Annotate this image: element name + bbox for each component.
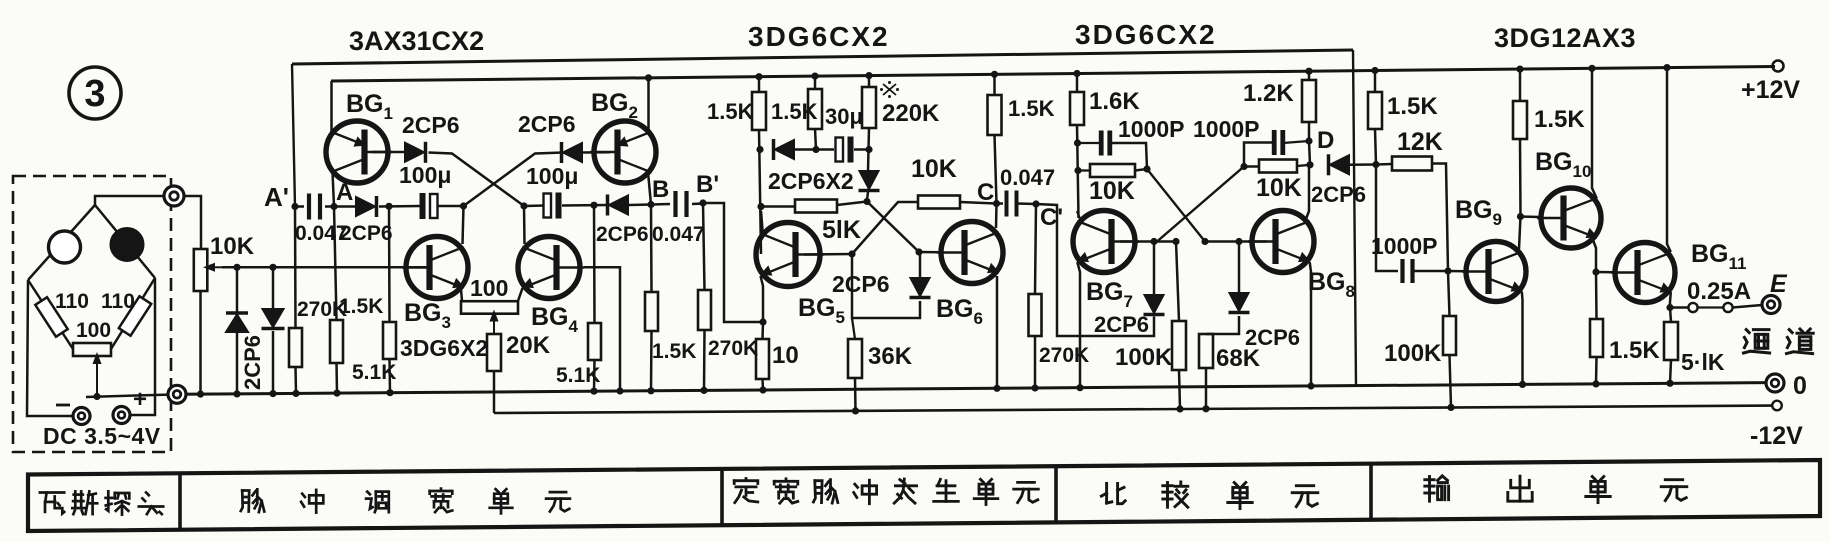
svg-text:5lK: 5lK — [822, 216, 861, 244]
capacitor 1000P right — [1272, 130, 1277, 155]
wire 270K-B leads — [703, 203, 705, 290]
wire wire 10K bottom to 0V bus — [199, 291, 202, 394]
wire BG1 collector to node A — [333, 172, 335, 207]
svg-text:110: 110 — [101, 290, 135, 313]
svg-text:1.5K: 1.5K — [1609, 337, 1660, 364]
svg-text:2CP6: 2CP6 — [1094, 312, 1149, 337]
svg-text:+: + — [133, 386, 147, 413]
svg-text:3DG6CX2: 3DG6CX2 — [1075, 19, 1217, 50]
table cell gas probe — [40, 491, 64, 494]
svg-text:B: B — [652, 176, 669, 203]
wire BG10 base lead — [1521, 215, 1541, 218]
terminal probe output upper — [164, 186, 184, 206]
svg-text:10K: 10K — [911, 155, 957, 183]
bridge pot wiper arrow — [96, 360, 98, 397]
wire 10ohm to bus — [761, 379, 764, 390]
svg-text:5·lK: 5·lK — [1681, 349, 1725, 375]
wire BG7 base row — [1120, 240, 1176, 243]
node junction 220K cap row — [865, 146, 872, 153]
wire BG6 emitter vertical — [996, 276, 999, 388]
wire BG9 base lead — [1448, 270, 1465, 273]
resistor 1.5K third — [988, 95, 1002, 135]
node node A-prime — [291, 203, 298, 210]
svg-text:D: D — [1317, 127, 1334, 154]
wire clamp diode 2 to bus — [272, 331, 275, 394]
node node BG7 base diode tap — [1150, 238, 1157, 245]
svg-text:2CP6: 2CP6 — [1311, 182, 1366, 207]
fuse 0.25A — [1688, 303, 1697, 312]
wire 1.5K-6 top lead — [1595, 272, 1598, 319]
svg-text:10: 10 — [772, 342, 799, 369]
node junction clamp1 bus — [233, 390, 240, 397]
wire 20K bottom to -12V bus start — [493, 371, 496, 413]
wire clamp diode 1 to bus — [236, 332, 239, 394]
transistor BG10 (3DG12A) — [1541, 188, 1601, 248]
svg-text:1.5K: 1.5K — [771, 99, 818, 124]
resistor 270K at C-prime — [1029, 294, 1042, 336]
node junction 1.5K-2 rail — [811, 73, 818, 80]
svg-text:3: 3 — [84, 73, 105, 115]
wire cap to C-prime node — [1017, 202, 1036, 205]
wire X diagonal 10K-right to BG7 base — [1157, 167, 1259, 242]
terminal probe output lower — [168, 385, 186, 403]
svg-text:3DG6CX2: 3DG6CX2 — [748, 21, 890, 52]
gas sensing element (compensating, white) — [49, 231, 81, 263]
wire 1000P-3 branch from junction — [1376, 165, 1398, 272]
node junction wiper/bottom wire — [93, 393, 100, 400]
wire 1.5K-1 top — [758, 77, 761, 92]
node junction cap row left — [1074, 139, 1081, 146]
wire BG7 collector wire — [1077, 211, 1080, 219]
wire -12V bus — [494, 406, 1772, 413]
svg-text:0.047: 0.047 — [1000, 165, 1055, 190]
resistor 1.2K — [1302, 80, 1316, 122]
potentiometer 100 (emitter coupling) — [461, 301, 518, 314]
svg-text:1.5K: 1.5K — [1534, 106, 1585, 133]
potentiometer 100 (bridge balance) — [73, 343, 111, 356]
svg-text:3DG6X2: 3DG6X2 — [400, 335, 488, 361]
wire 1.5K-2 top — [814, 76, 817, 89]
svg-text:10K: 10K — [1089, 177, 1135, 205]
wire BG5 emitter wire — [761, 276, 764, 322]
wire frame left edge / A-prime feed — [292, 64, 295, 207]
diode 2CP6 at A — [356, 197, 375, 216]
terminal minus supply — [73, 408, 90, 425]
wire cap to node B-prime — [692, 202, 703, 205]
wire D diode anode to 12K junction — [1349, 163, 1376, 166]
capacitor 0.047 at C — [1005, 191, 1009, 217]
wire 1.5K-A leads — [334, 207, 337, 321]
transistor BG1 (3AX31C) — [326, 121, 388, 183]
node node B-prime — [699, 199, 706, 206]
resistor 220K — [862, 87, 876, 128]
wire C-prime trigger jog to BG7 base diode — [1036, 204, 1154, 336]
node junction 1.2K rail — [1305, 68, 1312, 75]
wire 1.5K-2 bottom — [815, 129, 816, 150]
probe dashed enclosure — [13, 176, 171, 452]
wire frame top edge of units box — [292, 50, 1353, 64]
wire fuse left lead — [1670, 306, 1688, 309]
node junction clamp2 top — [269, 264, 276, 271]
node node BG10 base — [1517, 213, 1524, 220]
node node C-prime — [1032, 200, 1039, 207]
svg-text:2CP6: 2CP6 — [596, 223, 649, 246]
wire wiper line to BG3 base — [222, 266, 430, 269]
wire 1.2K top — [1308, 71, 1311, 80]
wire 1.6K top — [1076, 74, 1079, 93]
resistor 270K at B-prime — [698, 290, 711, 330]
svg-text:36K: 36K — [868, 343, 913, 370]
wire diode anode to 30u cap — [794, 148, 834, 151]
svg-text:30μ: 30μ — [825, 104, 863, 129]
svg-text:-12V: -12V — [1750, 422, 1803, 450]
svg-text:100: 100 — [76, 319, 111, 342]
wire bridge lower-left arm — [28, 280, 73, 349]
capacitor 100u right — [544, 194, 552, 218]
wire diode top to BG6 base node — [919, 252, 922, 278]
node junction clamp2 bus — [269, 390, 276, 397]
node node A — [330, 203, 337, 210]
wire 270K to bus — [294, 367, 297, 393]
wire BG4 base to 0V bus — [584, 267, 620, 391]
pot 100 wiper arrow — [493, 317, 495, 334]
resistor 20K — [487, 334, 501, 371]
diode 2CP6 at D — [1330, 155, 1349, 174]
svg-text:1000P: 1000P — [1371, 233, 1438, 259]
wire 1.5K-4 top — [1374, 71, 1377, 93]
wire bridge lower-right arm — [111, 278, 155, 349]
wire 12K right to BG9 base corner — [1432, 164, 1448, 272]
wire BG2 collector to node B — [648, 172, 651, 205]
wire bridge upper-left arm — [28, 205, 95, 280]
svg-text:1.5K: 1.5K — [1008, 96, 1055, 121]
svg-text:2CP6: 2CP6 — [832, 271, 890, 297]
wire 30u cap to 220K line — [854, 148, 869, 151]
node node D — [1305, 137, 1312, 144]
wire 100K-1 top lead — [1176, 242, 1179, 322]
wire diode top to BG7 base row — [1153, 242, 1156, 296]
node junction 5.1K-out on bus — [1666, 380, 1673, 387]
label circled figure number 3 — [69, 67, 121, 119]
wire wire probe to 10K pot — [183, 196, 201, 249]
wire BG4 collector to B-line — [523, 206, 526, 244]
node node BG6 base — [915, 248, 922, 255]
diode 2CP6 at BG7 base — [1145, 295, 1164, 313]
wire clamp diode 2 leads — [272, 267, 275, 309]
wire BG9 emitter wire — [1521, 292, 1524, 385]
label reference asterisk mark — [883, 84, 896, 95]
wire B-prime trigger jog to BG5 emitter — [703, 203, 763, 322]
transistor BG5 (3DG6C) — [756, 223, 820, 287]
wire cross-coupling diagonal right-to-left — [429, 153, 525, 207]
node junction 10K-right left end — [1240, 163, 1247, 170]
node node BG5 base — [848, 250, 855, 257]
diode 2CP6 clamp pointing down — [263, 309, 284, 327]
wire 10K right lead to D junction — [1297, 165, 1310, 166]
wire BG11 collector to +12V — [1667, 68, 1671, 252]
transistor BG2 (3AX31C) — [594, 121, 656, 183]
wire 1.2K bottom to node D — [1308, 122, 1311, 141]
resistor 36K — [848, 339, 862, 378]
svg-text:+12V: +12V — [1741, 76, 1800, 104]
transistor BG11 (3DG12A) — [1615, 243, 1675, 303]
wire 5.1K-right to bus — [593, 360, 596, 391]
node junction BG11 collector rail — [1663, 64, 1670, 71]
resistor 270K at A-prime — [289, 328, 302, 367]
wire 100K-2 to -12V bus — [1450, 355, 1452, 407]
svg-text:3DG12AX3: 3DG12AX3 — [1494, 23, 1636, 53]
capacitor 0.047 at B — [673, 191, 677, 217]
wire 10K to node C — [960, 202, 996, 204]
svg-text:1.5K: 1.5K — [707, 99, 754, 124]
resistor 110 (right bridge arm) — [119, 296, 151, 335]
wire bridge right excitation wire — [131, 278, 155, 415]
svg-text:5.1K: 5.1K — [556, 364, 600, 387]
resistor 5.1K right — [588, 323, 601, 360]
node node C — [993, 200, 1000, 207]
wire +12V supply rail — [331, 67, 1775, 82]
wire diode anode to node B — [628, 203, 651, 206]
node junction BG10 collector rail — [1588, 65, 1595, 72]
wire cap to BG3 collector node — [437, 205, 463, 208]
resistor 1.5K fifth (BG10 collector load) — [1513, 101, 1527, 139]
svg-text:100K: 100K — [1384, 340, 1442, 367]
node junction 10K row left — [1074, 167, 1081, 174]
wire BG11 base lead — [1596, 271, 1614, 274]
wire BG10 collector to +12V — [1592, 68, 1597, 198]
node node BG7 base 100K tap — [1172, 238, 1179, 245]
diode below 220K — [860, 171, 879, 189]
terminal plus supply — [113, 407, 130, 424]
svg-text:A': A' — [264, 182, 289, 212]
wire BG6 base lead — [919, 251, 940, 254]
node junction 1.5K-6 on bus — [1592, 380, 1599, 387]
wire A-prime to coupling cap — [295, 205, 304, 208]
node node after diode A side — [385, 203, 392, 210]
svg-text:2CP6: 2CP6 — [340, 222, 393, 245]
wire diode to 51K node — [867, 192, 868, 200]
wire 270K leads — [294, 207, 297, 329]
node node BG8 base diode tap — [1235, 238, 1242, 245]
diode 2CP6 at BG1 base — [405, 143, 424, 162]
gas sensing element (active, black) — [111, 228, 144, 261]
capacitor 100u left — [420, 193, 426, 219]
node junction BG7 emitter on bus — [1076, 384, 1083, 391]
node junction diode row left — [756, 146, 763, 153]
svg-text:270K: 270K — [708, 337, 758, 360]
wire 1.5K-1 bottom to diode row and 51K row — [759, 130, 761, 254]
node junction BG8 emitter on bus — [1307, 382, 1314, 389]
svg-text:5.1K: 5.1K — [352, 361, 396, 384]
diode 2CP6 at BG8 base — [1230, 293, 1249, 311]
node junction 1.5K-1 rail — [755, 73, 762, 80]
wire bridge upper-right arm — [95, 205, 155, 278]
resistor 110 (left bridge arm) — [35, 297, 67, 336]
node junction 10K-right / D diode — [1306, 161, 1313, 168]
label minus sign — [56, 404, 70, 407]
node node 51K row right / X start — [863, 198, 870, 205]
terminal -12V — [1772, 401, 1782, 411]
diode 2CP6 clamp pointing up — [226, 315, 248, 333]
node node BG3 collector junction — [460, 202, 467, 209]
svg-text:2CP6: 2CP6 — [402, 112, 460, 138]
table unit-name strip — [28, 460, 1820, 531]
resistor 10K cross right — [1259, 160, 1297, 173]
node junction 100K-1 on -12V bus — [1176, 405, 1183, 412]
svg-text:20K: 20K — [506, 332, 551, 359]
svg-text:220K: 220K — [882, 100, 940, 127]
wire 1.5K-5 bottom to BG10 base node — [1519, 139, 1522, 217]
diode 2CP6 at BG6 base — [911, 278, 930, 296]
resistor 51K — [795, 200, 837, 213]
table cell pulse width modulation unit — [242, 491, 249, 512]
wire 36K top lead — [852, 318, 855, 339]
node junction 1.5K-5 rail — [1516, 66, 1523, 73]
wire cross-coupling diagonal left-to-right — [464, 153, 564, 207]
node junction 1.5K-B on bus — [647, 387, 654, 394]
node node BG11 emitter output — [1666, 304, 1673, 311]
wire 10K row left lead — [1078, 169, 1090, 171]
wire clamp diode 1 leads — [236, 267, 239, 312]
transistor BG7 (3DG6C) — [1073, 211, 1135, 273]
node junction BG9 emitter on bus — [1519, 381, 1526, 388]
resistor 1.5K first (BG5 collector) — [752, 92, 766, 130]
wire 1.5K-B leads — [650, 205, 653, 293]
wire 12K left lead — [1376, 163, 1392, 166]
wire 100K-2 top lead — [1448, 271, 1450, 316]
svg-text:100μ: 100μ — [526, 163, 578, 189]
node node after right cap — [590, 202, 597, 209]
wire BG8 emitter wire — [1310, 262, 1311, 386]
node junction clamp1 top — [233, 264, 240, 271]
wire 1.5K-3 top — [993, 74, 996, 95]
wire BG3 emitter to pot 100 left — [461, 289, 462, 301]
svg-text:2CP6X2: 2CP6X2 — [768, 168, 854, 194]
wire node D down to diode row — [1309, 141, 1310, 165]
node junction 10ohm on bus — [759, 386, 766, 393]
svg-text:0.25A: 0.25A — [1687, 278, 1751, 305]
node junction 1.5K-A on bus — [333, 390, 340, 397]
svg-text:1.5K: 1.5K — [1387, 93, 1438, 120]
wire BG2 emitter to +12V rail — [647, 78, 650, 133]
wire bridge output bottom wire — [86, 395, 168, 397]
capacitor 1000P left — [1099, 131, 1104, 156]
node node BG11 base — [1592, 268, 1599, 275]
capacitor 30u — [836, 138, 844, 162]
node node BG4 collector junction — [520, 202, 527, 209]
svg-text:1.5K: 1.5K — [652, 340, 696, 363]
resistor 1.5K second — [808, 89, 822, 129]
wire BG4 collector node to right 100u cap — [524, 204, 545, 207]
node junction 68K on -12V bus — [1202, 405, 1209, 412]
node junction BG6 emitter on bus — [993, 385, 1000, 392]
svg-text:E: E — [1770, 270, 1788, 298]
node junction 220K rail — [865, 72, 872, 79]
resistor 10 ohm — [756, 339, 769, 379]
wire right cap to diode at B — [562, 204, 607, 207]
resistor 5.1K output — [1664, 322, 1678, 360]
wire BG9 collector wire — [1519, 217, 1521, 250]
potentiometer 10K (sensitivity) — [194, 249, 208, 291]
svg-text:0.047: 0.047 — [652, 223, 705, 246]
svg-text:100μ: 100μ — [399, 162, 451, 188]
resistor 1.5K at A — [330, 320, 343, 363]
node junction 1.6K rail — [1073, 70, 1080, 77]
table cell output unit — [1425, 478, 1434, 481]
wire 5.1K-left leads — [388, 206, 391, 322]
node junction BG4 base wire on bus — [616, 387, 623, 394]
wire 51K row — [761, 205, 795, 208]
wire 1.5K-5 top — [1519, 69, 1522, 101]
node junction 100K-2 on -12V bus — [1447, 404, 1454, 411]
node junction 12K / 1.5K / 1000P — [1372, 161, 1379, 168]
node junction 1.5K-3 rail — [991, 71, 998, 78]
svg-text:1000P: 1000P — [1193, 116, 1260, 142]
wire 1.5K-6 to bus — [1595, 357, 1598, 384]
wire probe bridge top feed — [95, 196, 174, 205]
wire 1.5K-4 bottom — [1375, 129, 1376, 165]
wire 270K-C to bus — [1034, 336, 1037, 388]
resistor 12K — [1392, 157, 1432, 171]
label tongdao (channel) — [1746, 330, 1749, 333]
wire 5.1K-out to bus — [1670, 360, 1671, 383]
terminal +12V — [1773, 61, 1784, 72]
wire BG7 emitter wire — [1077, 262, 1080, 388]
wire 5.1K-left to bus — [388, 359, 391, 393]
node node BG5 emitter / B-prime trigger — [759, 318, 766, 325]
svg-text:2CP6: 2CP6 — [518, 111, 576, 137]
svg-text:10K: 10K — [1256, 174, 1302, 202]
wire 270K-B to bus — [703, 330, 706, 390]
wire 1.5K-A to bus — [335, 363, 338, 393]
node junction BG2 emitter on rail — [645, 74, 652, 81]
svg-text:12K: 12K — [1397, 128, 1443, 156]
wire diode to 5.1K node — [379, 205, 420, 208]
wire 10ohm top lead — [761, 322, 764, 339]
terminal E output — [1762, 296, 1780, 314]
svg-text:1000P: 1000P — [1118, 116, 1185, 142]
wire cap to node A — [325, 205, 356, 208]
node junction 5.1K-left on bus — [386, 389, 393, 396]
10K wiper arrow — [212, 266, 222, 268]
wire BG1 emitter to +12V rail corner — [330, 81, 333, 133]
svg-text:C': C' — [1040, 204, 1063, 231]
node junction 1.5K-2 diode row — [812, 146, 819, 153]
terminal 0 (channel common) — [1766, 374, 1784, 392]
svg-text:68K: 68K — [1216, 345, 1261, 372]
node node B — [647, 201, 654, 208]
wire diode top lead BG8 — [1238, 242, 1241, 294]
svg-text:100K: 100K — [1115, 344, 1173, 371]
svg-text:C: C — [977, 179, 994, 206]
svg-text:1.6K: 1.6K — [1089, 88, 1140, 115]
wire frame right edge — [1353, 50, 1356, 386]
resistor 100K at BG9 — [1443, 316, 1456, 355]
resistor 1.5K sixth — [1590, 319, 1603, 357]
wire 5.1K-right leads — [593, 205, 596, 323]
node junction 5.1K-right on bus — [590, 388, 597, 395]
node junction 10K-left right end — [1143, 165, 1150, 172]
transistor BG9 (3DG12A) — [1466, 242, 1526, 302]
diode 2CP6 at BG2 base — [563, 143, 582, 162]
wire 1.5K-3 bottom to node C — [995, 135, 997, 204]
capacitor 0.047 input — [307, 194, 311, 220]
wire cap 1000P-1 left lead — [1078, 142, 1102, 144]
wire cap 1000P-1 right lead to 10K row — [1110, 143, 1147, 169]
wire BG6 collector vertical — [995, 204, 998, 229]
wire 0V bus — [177, 383, 1766, 395]
node junction 10K bottom on bus — [197, 391, 204, 398]
